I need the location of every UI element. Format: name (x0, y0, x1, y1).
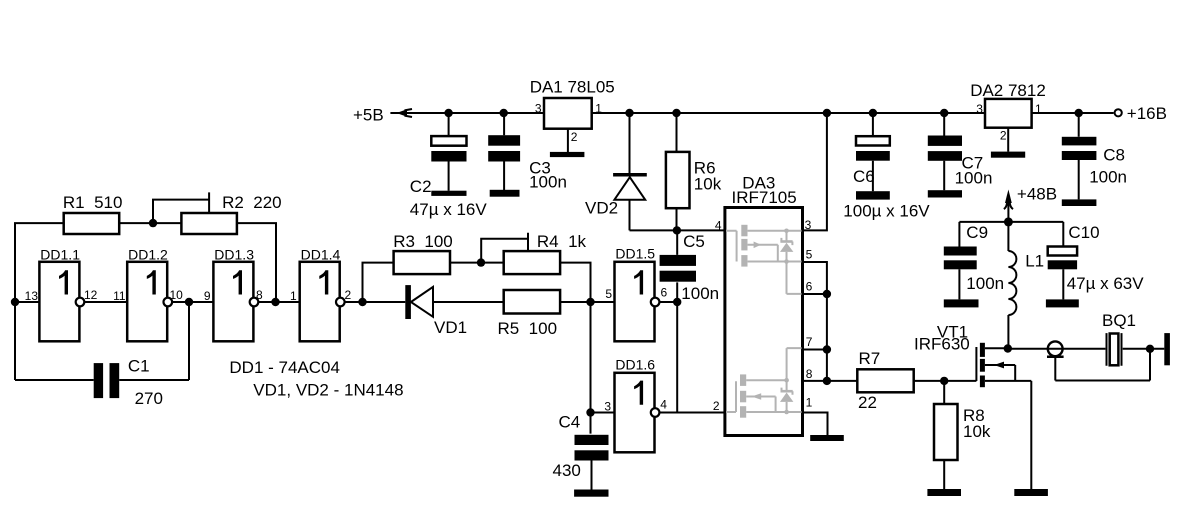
svg-text:DD1.1: DD1.1 (40, 247, 80, 263)
svg-text:R4 1k: R4 1k (537, 232, 587, 251)
svg-text:1: 1 (290, 289, 297, 303)
svg-text:DD1.5: DD1.5 (615, 246, 655, 262)
svg-text:BQ1: BQ1 (1102, 311, 1136, 330)
svg-text:22: 22 (858, 393, 877, 412)
svg-text:100n: 100n (955, 169, 993, 188)
svg-text:2: 2 (1000, 129, 1007, 143)
svg-text:1: 1 (1035, 102, 1042, 116)
svg-text:100n: 100n (681, 284, 719, 303)
svg-text:6: 6 (661, 286, 668, 300)
svg-text:C1: C1 (128, 357, 150, 376)
svg-text:9: 9 (204, 289, 211, 303)
svg-text:4: 4 (715, 219, 722, 233)
svg-text:C9: C9 (966, 223, 988, 242)
svg-text:3: 3 (535, 101, 542, 115)
svg-text:VD2: VD2 (585, 199, 618, 218)
svg-text:R3 100: R3 100 (393, 232, 453, 251)
svg-text:2: 2 (345, 288, 352, 302)
svg-text:VD1, VD2 - 1N4148: VD1, VD2 - 1N4148 (253, 380, 403, 399)
svg-text:C10: C10 (1068, 223, 1099, 242)
svg-text:100n: 100n (529, 173, 567, 192)
svg-text:270: 270 (135, 389, 163, 408)
svg-text:100n: 100n (966, 274, 1004, 293)
svg-text:IRF7105: IRF7105 (732, 188, 797, 207)
svg-text:L1: L1 (1025, 252, 1044, 271)
svg-text:2: 2 (713, 399, 720, 413)
svg-text:11: 11 (113, 289, 126, 303)
svg-text:DD1.2: DD1.2 (128, 247, 168, 263)
svg-text:2: 2 (571, 130, 578, 144)
svg-text:+48B: +48B (1017, 184, 1057, 203)
svg-text:47µ x 63V: 47µ x 63V (1067, 274, 1145, 293)
svg-text:430: 430 (553, 461, 581, 480)
svg-text:+5B: +5B (353, 106, 384, 125)
svg-text:DD1 - 74AC04: DD1 - 74AC04 (229, 358, 340, 377)
svg-text:1: 1 (806, 395, 813, 409)
svg-text:3: 3 (604, 400, 611, 414)
svg-text:13: 13 (25, 289, 39, 303)
svg-text:IRF630: IRF630 (914, 335, 970, 354)
svg-text:7: 7 (806, 335, 813, 349)
svg-text:DD1.6: DD1.6 (615, 357, 655, 373)
svg-text:C6: C6 (853, 167, 875, 186)
svg-text:+16B: +16B (1127, 104, 1167, 123)
svg-text:R7: R7 (859, 349, 881, 368)
svg-text:10: 10 (170, 288, 184, 302)
svg-text:DA2 7812: DA2 7812 (970, 81, 1046, 100)
svg-text:DA1 78L05: DA1 78L05 (530, 77, 615, 96)
svg-text:3: 3 (976, 102, 983, 116)
svg-text:R2 220: R2 220 (222, 193, 282, 212)
svg-text:8: 8 (256, 288, 263, 302)
svg-text:C5: C5 (683, 232, 705, 251)
svg-text:DD1.3: DD1.3 (214, 247, 254, 263)
svg-text:DD1.4: DD1.4 (301, 247, 341, 263)
svg-text:8: 8 (806, 367, 813, 381)
svg-text:R5 100: R5 100 (498, 319, 558, 338)
svg-text:10k: 10k (963, 422, 991, 441)
svg-text:6: 6 (806, 279, 813, 293)
svg-text:100n: 100n (1089, 168, 1127, 187)
svg-text:1: 1 (595, 101, 602, 115)
svg-text:12: 12 (84, 288, 98, 302)
svg-text:10k: 10k (694, 174, 722, 193)
svg-text:C2: C2 (410, 177, 432, 196)
svg-text:VD1: VD1 (434, 318, 467, 337)
svg-text:4: 4 (660, 398, 667, 412)
svg-text:C4: C4 (559, 413, 581, 432)
svg-text:5: 5 (806, 248, 813, 262)
svg-text:47µ x 16V: 47µ x 16V (410, 200, 488, 219)
svg-text:C8: C8 (1103, 146, 1125, 165)
svg-text:5: 5 (605, 287, 612, 301)
svg-text:100µ x 16V: 100µ x 16V (843, 202, 930, 221)
svg-text:R1 510: R1 510 (63, 193, 123, 212)
